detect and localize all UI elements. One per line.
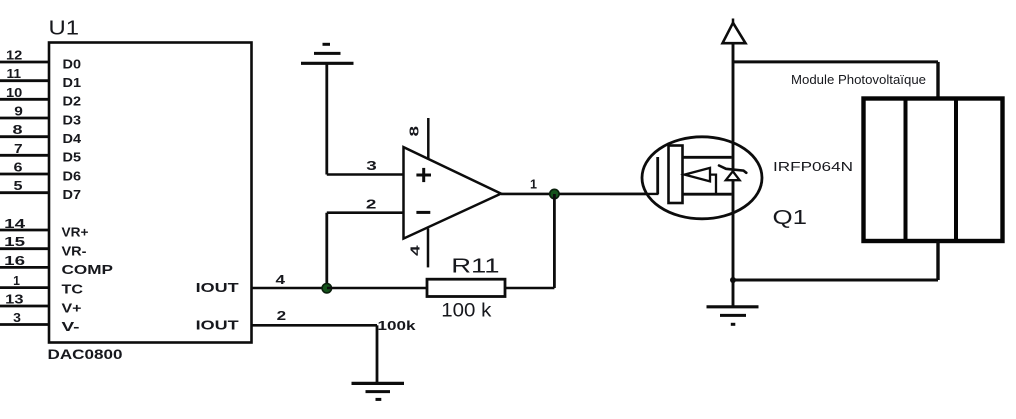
op-amp pin 2 wire <box>327 211 404 214</box>
svg-text:4: 4 <box>408 244 423 256</box>
svg-text:9: 9 <box>14 104 23 119</box>
svg-text:D1: D1 <box>63 75 82 90</box>
photovoltaic module body <box>864 99 1003 242</box>
substrate arrow link <box>710 175 716 195</box>
svg-text:D0: D0 <box>63 56 82 71</box>
pin 1 / TC <box>0 273 84 297</box>
body diode cathode <box>719 166 746 173</box>
svg-text:IRFP064N: IRFP064N <box>773 159 853 174</box>
wire: module return (bottom) <box>733 279 938 282</box>
pin 5 / D7 <box>0 178 81 202</box>
svg-text:2: 2 <box>366 196 377 211</box>
svg-text:7: 7 <box>14 141 23 156</box>
MOSFET channel bar <box>669 146 683 204</box>
svg-text:12: 12 <box>6 48 22 63</box>
junction node (IOUT/R11) <box>322 284 331 293</box>
svg-text:2: 2 <box>277 308 287 323</box>
power arrow (VCC) <box>723 23 746 43</box>
svg-text:4: 4 <box>276 272 287 287</box>
op-amp U2 triangle <box>404 147 502 239</box>
svg-text:DAC0800: DAC0800 <box>48 347 123 362</box>
svg-text:3: 3 <box>13 310 21 325</box>
wire: module bottom exit <box>936 241 939 280</box>
svg-text:U1: U1 <box>49 18 80 40</box>
gate wire inside ellipse <box>610 193 659 195</box>
MOSFET substrate arrow <box>685 168 711 182</box>
svg-text:1: 1 <box>530 177 537 192</box>
pin 13 / V+ <box>0 292 82 316</box>
junction node (output) <box>550 189 559 198</box>
op-amp pin 4 stub <box>427 228 430 267</box>
svg-text:Module Photovoltaïque: Module Photovoltaïque <box>791 73 926 87</box>
resistor R11 body <box>427 279 505 296</box>
svg-text:V-: V- <box>62 319 80 334</box>
svg-text:D7: D7 <box>63 187 82 202</box>
svg-text:5: 5 <box>14 178 23 193</box>
op-amp - marker <box>416 211 430 214</box>
MOSFET source link <box>683 193 732 196</box>
svg-text:D2: D2 <box>63 94 82 109</box>
drain-source vertical wire <box>732 43 735 306</box>
wire: ground stem down to pin3 <box>325 63 328 174</box>
svg-text:Q1: Q1 <box>773 207 808 229</box>
wire: pin2 down to ground <box>376 325 379 382</box>
pin 6 / D6 <box>0 160 81 184</box>
ground (below 100k) <box>352 383 405 399</box>
module divider 2 <box>954 99 958 242</box>
MOSFET gate bar <box>656 157 659 194</box>
svg-text:D6: D6 <box>63 168 82 183</box>
svg-text:100k: 100k <box>378 318 417 333</box>
pin 16 / COMP <box>0 253 113 277</box>
svg-text:13: 13 <box>5 292 23 307</box>
svg-text:D5: D5 <box>63 150 82 165</box>
wire: module top entry <box>936 62 939 99</box>
svg-text:8: 8 <box>407 126 422 137</box>
pin 11 / D1 <box>0 66 81 90</box>
svg-text:6: 6 <box>14 160 23 175</box>
svg-text:VR+: VR+ <box>62 225 89 240</box>
svg-text:COMP: COMP <box>62 262 114 277</box>
op-amp output wire to gate <box>501 193 659 196</box>
svg-text:10: 10 <box>6 85 22 100</box>
pin 4 wire IOUT <box>252 287 328 290</box>
pin 2 wire IOUT <box>252 324 378 327</box>
op-amp pin 8 stub <box>427 118 430 159</box>
wire: feedback vertical <box>325 213 328 288</box>
pin 10 / D2 <box>0 85 81 109</box>
pin 9 / D3 <box>0 104 81 128</box>
svg-text:V+: V+ <box>62 300 82 315</box>
svg-text:100 k: 100 k <box>441 299 491 321</box>
svg-text:D3: D3 <box>63 112 82 127</box>
svg-text:VR-: VR- <box>62 243 87 258</box>
pin 8 / D4 <box>0 122 82 146</box>
junction (return to source) <box>730 277 736 283</box>
inverted ground (op-amp + input) <box>301 44 354 63</box>
pin 14 / VR+ <box>0 216 89 240</box>
svg-text:R11: R11 <box>451 256 499 278</box>
wire: output node down to R11 <box>553 194 556 288</box>
body diode triangle <box>726 171 740 180</box>
module divider 1 <box>904 99 908 242</box>
svg-text:IOUT: IOUT <box>196 280 239 295</box>
svg-text:11: 11 <box>7 66 22 81</box>
svg-text:8: 8 <box>13 122 23 137</box>
svg-text:16: 16 <box>4 253 25 268</box>
svg-text:14: 14 <box>4 216 26 231</box>
wire: node to R11 <box>327 287 427 290</box>
svg-text:TC: TC <box>62 282 84 297</box>
svg-text:IOUT: IOUT <box>196 318 239 333</box>
IC U1 body <box>49 43 252 343</box>
pin 12 / D0 <box>0 48 81 72</box>
power arrow tip stub <box>732 19 735 24</box>
op-amp + marker <box>416 168 431 182</box>
svg-text:15: 15 <box>4 234 25 249</box>
wire: R11 to feedback vertical <box>505 287 554 290</box>
MOSFET drain link <box>683 156 732 159</box>
op-amp pin 3 wire <box>327 173 404 176</box>
ground (MOSFET source) <box>707 307 759 325</box>
wire: VCC to module (top) <box>733 60 938 63</box>
svg-text:1: 1 <box>13 273 20 288</box>
MOSFET ellipse Q1 <box>642 137 762 219</box>
pin 15 / VR- <box>0 234 87 258</box>
pin 3 / V- <box>0 310 80 334</box>
svg-text:3: 3 <box>366 158 377 173</box>
svg-text:D4: D4 <box>63 131 82 146</box>
pin 7 / D5 <box>0 141 81 165</box>
